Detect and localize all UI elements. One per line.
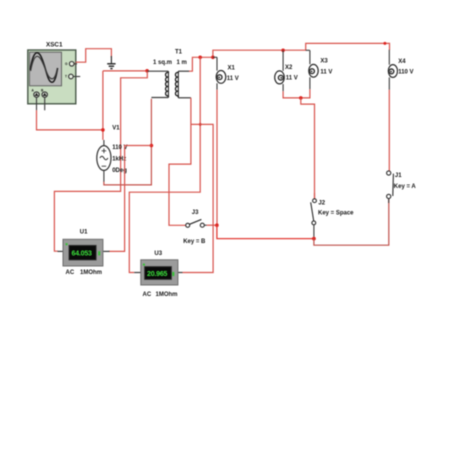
wire bottom rail left xyxy=(217,225,314,238)
svg-text:J2: J2 xyxy=(318,201,325,207)
svg-text:U1: U1 xyxy=(80,230,88,236)
svg-text:X4: X4 xyxy=(398,59,406,65)
svg-text:20.965: 20.965 xyxy=(147,271,168,278)
wire V1- to primary-bottom riser xyxy=(104,99,151,185)
wire V1+ riser xyxy=(102,71,104,140)
blob on X4 rail xyxy=(383,42,386,45)
scope T stub xyxy=(73,76,80,78)
svg-text:Key = Space: Key = Space xyxy=(318,211,354,217)
svg-text:110 V: 110 V xyxy=(398,69,413,75)
node dot X2 on rail xyxy=(281,49,285,53)
svg-text:11 V: 11 V xyxy=(320,70,332,76)
wire dot down jog to U1-left riser xyxy=(54,71,147,251)
lamp X3 xyxy=(309,50,318,89)
svg-text:J3: J3 xyxy=(192,210,199,216)
switch J3 xyxy=(186,219,207,227)
lamp X1 xyxy=(216,57,226,89)
wire rail end to X3 pin xyxy=(306,49,310,51)
svg-text:11 V: 11 V xyxy=(286,76,298,82)
svg-text:Key = B: Key = B xyxy=(183,239,206,245)
svg-text:1 m: 1 m xyxy=(177,60,187,66)
node dot primary-top xyxy=(145,69,149,73)
switch J1 xyxy=(387,171,394,203)
wire U3-left long riser xyxy=(129,57,200,272)
svg-text:XSC1: XSC1 xyxy=(46,41,63,48)
node dot X1 riser xyxy=(211,56,215,60)
scope B stub xyxy=(44,97,46,110)
svg-text:11 V: 11 V xyxy=(227,76,239,82)
wire y57 to X1 pin xyxy=(213,56,217,58)
node dot V1-/U1-right xyxy=(150,144,154,148)
svg-text:AC: AC xyxy=(66,270,75,276)
svg-text:T: T xyxy=(65,75,67,79)
svg-text:U3: U3 xyxy=(154,251,162,257)
wire X2/X3 bottoms join xyxy=(283,89,310,98)
svg-text:1MOhm: 1MOhm xyxy=(80,270,102,276)
node dot X2X3 xyxy=(299,96,303,100)
crossing blob xyxy=(199,123,202,126)
wire secondary-bottom riser to J3-left xyxy=(169,98,191,226)
svg-text:1MOhm: 1MOhm xyxy=(156,292,178,298)
ground xyxy=(107,56,115,69)
svg-text:V1: V1 xyxy=(112,126,120,132)
lamp X2 xyxy=(275,50,285,91)
wire J3-right to X1 column dot xyxy=(207,224,217,226)
transformer T1 xyxy=(147,71,191,98)
lamp X4 xyxy=(388,50,397,90)
wire secondary-bottom to U3-right xyxy=(182,124,213,272)
svg-text:AC: AC xyxy=(143,292,152,298)
node dot J2 bottom xyxy=(312,237,316,241)
multimeter U1 xyxy=(58,239,110,266)
svg-text:T1: T1 xyxy=(175,50,183,56)
wire down to J2 top xyxy=(301,98,315,199)
switch J2 xyxy=(311,193,317,237)
wire GND horizontal to primary-top xyxy=(103,70,147,72)
wire scope G to ground xyxy=(74,49,111,64)
wire X1 bottom column xyxy=(216,90,218,226)
svg-text:1 sq.m: 1 sq.m xyxy=(153,60,172,66)
multimeter U3 xyxy=(134,260,182,285)
wire bottom rail right jog xyxy=(314,199,389,246)
node dot secondary-top / U3-left xyxy=(198,56,202,60)
oscilloscope XSC1 xyxy=(28,50,76,104)
wire scope A down xyxy=(36,97,38,110)
svg-text:64.053: 64.053 xyxy=(72,251,93,258)
svg-text:Key = A: Key = A xyxy=(394,184,417,190)
svg-text:X2: X2 xyxy=(285,65,293,71)
node dot scope-A / V1+ xyxy=(101,128,105,132)
svg-text:X1: X1 xyxy=(228,66,236,72)
AC source V1 xyxy=(97,140,111,182)
svg-text:X3: X3 xyxy=(320,59,328,65)
wire U1-right riser xyxy=(109,146,152,252)
wire X4 bottom to J1 top xyxy=(388,90,390,171)
wire secondary-top riser to lamp rail xyxy=(189,43,390,71)
node dot J3/X1 xyxy=(215,223,219,227)
svg-text:J1: J1 xyxy=(395,173,402,179)
